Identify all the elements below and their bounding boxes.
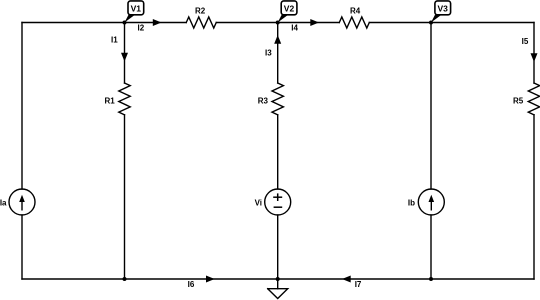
wire top rail middle segment [216, 22, 339, 24]
node V2 box [281, 1, 297, 15]
current arrow I3 [274, 35, 281, 44]
svg-text:I5: I5 [522, 37, 529, 46]
svg-text:I2: I2 [138, 24, 145, 33]
svg-text:Ib: Ib [408, 198, 415, 207]
wire left rail upper [21, 23, 23, 190]
wire top rail left segment [22, 22, 186, 24]
svg-text:Ia: Ia [0, 198, 7, 207]
junction dot bottom 1 [123, 277, 127, 281]
current arrow I2 [153, 19, 162, 26]
wire branch V3 upper [430, 23, 432, 190]
svg-text:I3: I3 [265, 49, 272, 58]
node V1 box [128, 1, 144, 15]
wire branch V1 lower [124, 115, 126, 279]
wire bottom rail [22, 278, 534, 280]
svg-text:I7: I7 [355, 280, 362, 289]
svg-text:R4: R4 [350, 7, 361, 16]
svg-text:I1: I1 [111, 36, 118, 45]
resistor R1 [119, 83, 130, 115]
ground [277, 279, 279, 289]
wire branch V2 lower [277, 215, 279, 279]
svg-text:R2: R2 [195, 7, 206, 16]
Vi plus sign [273, 193, 282, 207]
wire branch V2 middle [277, 115, 279, 189]
node V1 callout tail [125, 15, 136, 23]
wire branch V2 upper [277, 23, 279, 84]
junction dot V2 [276, 21, 280, 25]
voltage source Vi [265, 189, 291, 215]
current source Ia arrow [21, 200, 23, 211]
node V3 callout tail [431, 15, 442, 23]
wire right rail upper [533, 23, 535, 84]
svg-text:R5: R5 [513, 97, 524, 106]
resistor R4 [339, 17, 369, 28]
current source Ib [418, 189, 444, 215]
node V3 box [435, 1, 451, 15]
resistor R5 [528, 83, 539, 115]
junction dot bottom ground [276, 277, 280, 281]
svg-text:Vi: Vi [255, 198, 262, 207]
junction dot V1 [123, 21, 127, 25]
current arrow I6 [206, 276, 215, 283]
resistor R2 [186, 17, 216, 28]
wire left rail lower [21, 215, 23, 279]
wire right rail lower [533, 115, 535, 279]
node V2 callout tail [278, 15, 289, 23]
svg-text:V3: V3 [437, 4, 448, 14]
current source Ib arrow [430, 200, 432, 211]
junction dot bottom 3 [429, 277, 433, 281]
current arrow I5 [531, 53, 538, 62]
svg-text:I4: I4 [291, 24, 298, 33]
svg-text:R1: R1 [105, 97, 116, 106]
wire top rail right segment [369, 22, 534, 24]
Vi minus sign [274, 206, 283, 208]
svg-text:R3: R3 [258, 97, 269, 106]
current source Ia [9, 189, 35, 215]
wire branch V3 lower [430, 215, 432, 279]
resistor R3 [272, 83, 283, 115]
svg-text:V1: V1 [131, 4, 142, 14]
wire branch V1 upper [124, 23, 126, 84]
current arrow I1 [121, 53, 128, 62]
svg-text:V2: V2 [284, 4, 295, 14]
junction dot V3 [429, 21, 433, 25]
current arrow I7 [342, 276, 351, 283]
svg-text:I6: I6 [188, 280, 195, 289]
current arrow I4 [310, 19, 319, 26]
